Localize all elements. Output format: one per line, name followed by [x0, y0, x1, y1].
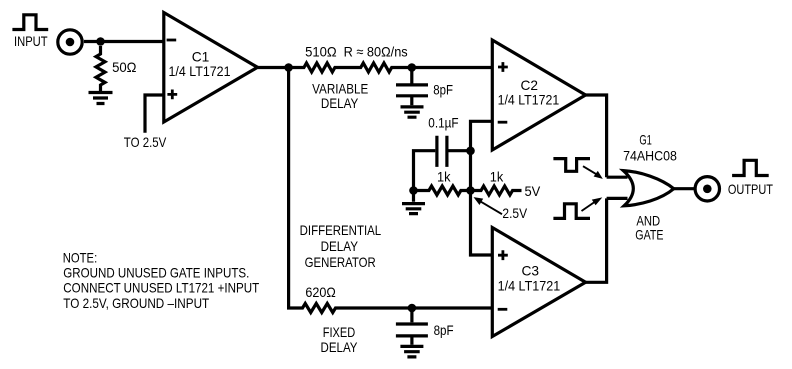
svg-text:R ≈ 80Ω/ns: R ≈ 80Ω/ns	[344, 43, 408, 59]
svg-text:TO 2.5V, GROUND –INPUT: TO 2.5V, GROUND –INPUT	[63, 295, 209, 311]
svg-text:TO 2.5V: TO 2.5V	[124, 134, 167, 150]
svg-text:0.1µF: 0.1µF	[428, 115, 458, 131]
svg-text:1k: 1k	[437, 169, 451, 185]
svg-text:DIFFERENTIAL: DIFFERENTIAL	[300, 222, 382, 238]
svg-text:GROUND UNUSED GATE INPUTS.: GROUND UNUSED GATE INPUTS.	[63, 264, 249, 280]
svg-text:1k: 1k	[490, 169, 504, 185]
svg-text:74AHC08: 74AHC08	[623, 148, 677, 164]
svg-text:G1: G1	[639, 131, 652, 147]
svg-text:NOTE:: NOTE:	[63, 249, 97, 265]
svg-text:1/4 LT1721: 1/4 LT1721	[498, 92, 560, 108]
svg-text:2.5V: 2.5V	[502, 205, 527, 221]
svg-text:GATE: GATE	[635, 226, 663, 242]
svg-text:C1: C1	[192, 48, 210, 64]
svg-text:FIXED: FIXED	[323, 324, 356, 340]
svg-text:C3: C3	[522, 263, 540, 279]
svg-text:8pF: 8pF	[434, 322, 454, 338]
svg-text:GENERATOR: GENERATOR	[305, 254, 376, 270]
svg-text:DELAY: DELAY	[321, 339, 358, 355]
svg-text:510Ω: 510Ω	[305, 43, 337, 59]
svg-text:620Ω: 620Ω	[305, 284, 335, 300]
svg-text:DELAY: DELAY	[321, 238, 359, 254]
svg-text:CONNECT UNUSED LT1721 +INPUT: CONNECT UNUSED LT1721 +INPUT	[63, 280, 259, 296]
svg-text:50Ω: 50Ω	[112, 59, 136, 75]
svg-text:8pF: 8pF	[433, 81, 453, 97]
svg-text:OUTPUT: OUTPUT	[728, 181, 773, 197]
svg-text:5V: 5V	[525, 183, 541, 199]
svg-text:1/4 LT1721: 1/4 LT1721	[498, 277, 561, 293]
svg-text:INPUT: INPUT	[14, 33, 48, 49]
svg-text:C2: C2	[521, 77, 539, 93]
svg-text:DELAY: DELAY	[321, 95, 359, 111]
svg-text:1/4 LT1721: 1/4 LT1721	[169, 63, 231, 79]
